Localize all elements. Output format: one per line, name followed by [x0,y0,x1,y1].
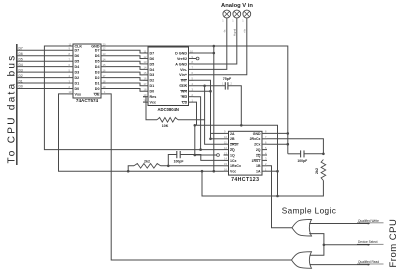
svg-text:Analog V in: Analog V in [221,3,253,9]
svg-text:GND: GND [253,132,261,136]
svg-text:D1: D1 [95,81,100,85]
node junction rail to R2 branch [127,170,130,173]
svg-text:D3: D3 [150,73,155,77]
wire R2 branch up [128,166,134,171]
svg-text:2RxCx: 2RxCx [250,137,261,141]
IC U3 74HCT123 dual monostable [224,130,268,175]
node junction CLK/75pF [203,85,206,88]
capacitor C1 75pF [225,82,228,89]
svg-text:D7: D7 [19,47,23,51]
wire 1Q feedback [195,125,217,155]
svg-text:ADC0804N: ADC0804N [158,107,179,112]
wire U3 2Cx to x288 [267,143,288,145]
net label Qualified Read [310,260,384,266]
svg-text:74HCT123: 74HCT123 [231,177,259,183]
net label Qualified Write [311,219,384,225]
svg-text:D2: D2 [19,74,23,78]
wire R1 to CLK vertical [178,86,205,120]
wire G1 in2 step to DS [309,234,324,245]
svg-text:10K: 10K [162,124,169,128]
svg-text:Vref/2: Vref/2 [177,57,187,61]
wire G1 in1 Qualified Write [309,223,311,225]
node junction rail drop x202 [201,170,204,173]
node To CPU data bus label [6,53,17,163]
node junction C2 left [167,165,170,168]
svg-text:Vcc: Vcc [150,101,157,105]
svg-text:D0: D0 [19,85,23,89]
svg-text:D5: D5 [150,62,155,66]
svg-text:+In: +In [243,29,247,33]
wire CPU data bus bar [16,44,18,165]
capacitor C2 100pF [177,151,180,158]
node 1Q open circle [217,154,220,157]
wire data bus U1 Q to U2 D [106,50,143,91]
svg-text:2k2: 2k2 [315,168,319,174]
node junction R3 top [322,153,325,156]
gate G2 OR (sample read) [292,252,312,269]
node junction 1A [276,170,279,173]
svg-text:D5: D5 [19,57,23,61]
svg-text:-In: -In [223,29,227,33]
wire A GND connector to U2 [194,18,237,64]
capacitor C3 100pF [301,150,304,157]
label C2 100pF [174,160,184,164]
wire CLK vertical to 2RST [205,120,224,144]
svg-text:Device Select: Device Select [358,240,378,244]
label bus line names D7-D0 [19,47,23,89]
gate G1 OR (sample write) [292,219,312,236]
node junction C1/CS line [240,124,243,127]
svg-text:D1: D1 [150,84,155,88]
svg-text:D4: D4 [19,63,23,67]
wire Vin- connector to U2 [194,18,227,70]
IC U2 ADC0804 A/D converter [143,47,194,106]
svg-text:From CPU: From CPU [388,219,399,268]
svg-text:Vin-: Vin- [180,68,188,72]
label R3 2k2 [315,168,319,174]
svg-text:2Q: 2Q [256,148,261,152]
node junction GND/DGND [213,45,216,48]
svg-text:2A: 2A [230,132,235,136]
node junction CS/1Q drop [194,124,197,127]
wire C2 left leg [168,155,177,166]
svg-text:2k2: 2k2 [144,159,150,163]
svg-text:100pF: 100pF [297,159,307,163]
svg-text:100pF: 100pF [174,160,184,164]
IC U1 74ACT574 octal latch [68,42,106,98]
wire U3 2RxCx over to R3 [267,139,323,154]
label Vin+ wire [243,29,247,33]
label C1 75pF [223,77,232,81]
wire R3 bottom loop [202,171,323,196]
wire C3 left leg [288,153,301,155]
svg-text:D0: D0 [150,90,155,94]
node junction loop/GND net [276,195,279,198]
svg-text:D0: D0 [75,87,80,91]
svg-text:D6: D6 [75,54,80,58]
net label Device Select [324,240,384,246]
connector J1 analog input pads [222,10,250,22]
node junction U3 2Cx [287,143,290,146]
wire U2 Res to R1 [143,97,157,120]
svg-text:1Q: 1Q [230,153,235,157]
wire GND top U1 to U3 [106,46,288,154]
node junction 2B [209,138,212,141]
wire G2 in2 Qualified Read [310,264,312,266]
label U3 74HCT123 [231,177,259,183]
node junction 1Q wire [194,154,197,157]
svg-text:74ACT574: 74ACT574 [76,98,99,103]
node junction GND rail x214 [213,170,216,173]
svg-text:Qualified Read: Qualified Read [358,260,379,264]
wire U3 GND pin to x288 [267,132,288,134]
resistor R3 2k2 vertical [321,160,326,181]
resistor R1 10K [157,118,178,123]
svg-text:To CPU data bus: To CPU data bus [6,53,17,163]
wire to U3 2A [211,132,224,134]
label C1 pin2 [231,84,233,86]
label Vin- wire [223,29,227,33]
svg-text:D6: D6 [19,52,23,56]
label A gnd wire [233,28,237,36]
wire U2 RD to CLK net [194,97,201,150]
svg-text:Res: Res [150,95,157,99]
node junction RD on CLK net [199,148,202,151]
svg-text:D0: D0 [95,87,100,91]
svg-text:Vcc: Vcc [230,170,236,174]
wire U2 CLK to C1 [194,85,226,87]
label R1 10K [162,124,169,128]
svg-text:D GND: D GND [175,51,187,55]
wire GND drop x214 to rail [213,46,215,171]
svg-text:D3: D3 [75,71,80,75]
svg-text:1RxCx: 1RxCx [230,164,241,168]
svg-text:A gnd: A gnd [233,28,237,36]
svg-text:D3: D3 [19,68,23,72]
svg-text:D7: D7 [95,49,100,53]
wire U2 WR stub [194,90,211,92]
wire C3 right leg [304,153,323,155]
wire U2 D GND up [194,52,214,54]
wire C2 right to U3 1Cx [180,155,223,161]
wire to U3 2B [211,138,224,140]
node Vref/2 open circle [194,57,200,60]
label Sample Logic [282,207,336,216]
svg-text:Vss: Vss [75,92,82,96]
node junction DS branch [323,244,326,247]
svg-text:Qualified Write: Qualified Write [358,219,379,223]
wire data bus lines D7-D0 to U1 [17,50,68,88]
svg-text:D3: D3 [95,71,100,75]
node junction DGND T [213,52,216,55]
wire Vin+ connector to U2 [194,18,247,75]
svg-text:1Cx: 1Cx [230,159,236,163]
svg-text:D2: D2 [150,79,155,83]
svg-text:1B: 1B [256,164,261,168]
svg-text:Sample Logic: Sample Logic [282,207,336,216]
wire U2 CS to 1A [194,102,278,196]
svg-text:D7: D7 [150,51,155,55]
svg-text:D2: D2 [75,76,80,80]
wire U1 OE to gate G2 output [106,94,292,260]
svg-text:75pF: 75pF [223,77,232,81]
svg-text:D6: D6 [95,54,100,58]
wire U1 Vss to GND rail [59,94,224,171]
wire C1 right down [228,86,241,126]
node junction INT/WR [209,90,212,93]
label U2 ADC0804N [158,107,179,112]
wire DS down to G2 in1 [310,245,324,255]
label R2 2k2 [144,159,150,163]
wire U2 INT to WR [194,80,211,139]
wire G1 output to U3 1B [267,166,293,228]
svg-text:D7: D7 [75,49,80,53]
wire U1 CLK left drop [44,46,223,150]
label U1 74ACT574 [76,98,99,103]
svg-text:D1: D1 [19,79,23,83]
label From CPU [388,219,399,268]
svg-text:Vin+: Vin+ [179,73,187,77]
label C3 100pF [297,159,307,163]
label C1 pin1 [222,84,224,86]
svg-text:2B: 2B [230,137,235,141]
svg-text:D1: D1 [75,81,80,85]
wire R2 to U3 1RxCx [161,165,224,167]
svg-text:D5: D5 [75,60,80,64]
wire U3 1A stub [267,170,278,172]
svg-text:2Cx: 2Cx [254,143,260,147]
node junction U3 GND pin [287,132,290,135]
svg-text:1A: 1A [256,170,261,174]
label Analog V in [221,3,253,9]
resistor R2 2k2 [134,164,161,169]
svg-text:D5: D5 [95,60,100,64]
svg-text:D2: D2 [95,76,100,80]
svg-text:D6: D6 [150,57,155,61]
svg-text:A GND: A GND [175,62,187,66]
